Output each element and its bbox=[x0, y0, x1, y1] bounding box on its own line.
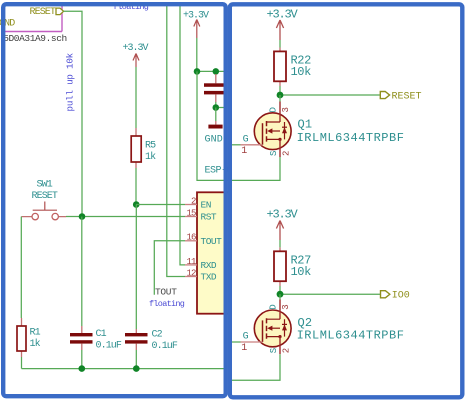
svg-text:15: 15 bbox=[186, 208, 196, 218]
+3.3V power symbol (Q2) bbox=[267, 208, 299, 241]
wire C1 to rail bbox=[81, 350, 83, 369]
resistor R22 bbox=[274, 48, 311, 87]
wire switch left to R1 bbox=[20, 217, 22, 318]
hierarchical sheet (partial, top-left) bbox=[1, 5, 62, 32]
wire R1 to ground rail bbox=[21, 357, 23, 369]
junction EN node bbox=[133, 201, 140, 208]
capacitor C1 bbox=[70, 326, 122, 352]
svg-text:0.1uF: 0.1uF bbox=[152, 341, 178, 352]
pin 16 TOUT bbox=[185, 233, 222, 247]
wire 3.3V rail right bbox=[197, 70, 228, 72]
wire junction to IO0 label bbox=[280, 293, 381, 295]
svg-text:1: 1 bbox=[241, 146, 247, 157]
Q2 IRLML6344TRPBF bbox=[232, 294, 404, 380]
junction Q1 drain bbox=[277, 92, 284, 99]
pin 2 EN bbox=[185, 196, 211, 210]
junction 3.3V left bbox=[194, 68, 201, 75]
svg-text:C2: C2 bbox=[152, 330, 163, 341]
svg-text:2: 2 bbox=[191, 196, 196, 206]
svg-text:3: 3 bbox=[281, 304, 291, 309]
svg-text:IRLML6344TRPBF: IRLML6344TRPBF bbox=[297, 131, 405, 145]
pin 11 RXD bbox=[185, 257, 217, 271]
wire +3.3V to R22 bbox=[279, 40, 281, 48]
floating wire to RXD (from top) bbox=[180, 5, 185, 265]
switch SW1 bbox=[21, 180, 66, 220]
capacitor C2 bbox=[125, 329, 178, 352]
+3.3V power symbol (R5) bbox=[123, 43, 149, 67]
svg-text:1: 1 bbox=[241, 343, 247, 354]
svg-text:11: 11 bbox=[186, 257, 196, 267]
resistor R1 bbox=[17, 318, 41, 357]
svg-text:5D0A31A9.sch: 5D0A31A9.sch bbox=[3, 33, 67, 44]
+3.3V power symbol (Q1) bbox=[267, 7, 299, 40]
svg-text:SW1: SW1 bbox=[37, 180, 53, 191]
capacitor (decoupling, at border) bbox=[204, 74, 225, 102]
wire switch to RST pin bbox=[66, 216, 185, 218]
blue highlight box left bbox=[3, 4, 226, 396]
wire +3.3V to R27 bbox=[279, 240, 281, 247]
junction at switch/RST node bbox=[79, 213, 86, 220]
svg-text:2: 2 bbox=[281, 348, 291, 353]
resistor R5 bbox=[131, 128, 156, 168]
svg-text:RESET: RESET bbox=[32, 191, 58, 202]
resistor R27 bbox=[274, 247, 311, 286]
ESP chip body U1 bbox=[197, 192, 229, 313]
svg-text:+3.3V: +3.3V bbox=[267, 208, 299, 222]
svg-text:TXD: TXD bbox=[201, 272, 217, 283]
wire C2 to rail bbox=[135, 350, 137, 369]
wire R5 to EN junction bbox=[135, 168, 137, 205]
blue highlight box right bbox=[230, 4, 462, 397]
svg-text:12: 12 bbox=[186, 268, 196, 278]
wire +3.3V down to junction bbox=[196, 38, 198, 71]
svg-text:Q1: Q1 bbox=[298, 118, 313, 132]
hierarchical label IO0 bbox=[381, 291, 410, 302]
pin 12 TXD bbox=[185, 268, 217, 282]
svg-text:1k: 1k bbox=[30, 338, 41, 350]
wire junction to RESET label bbox=[280, 94, 380, 96]
pin 15 RST bbox=[185, 208, 217, 222]
svg-text:10k: 10k bbox=[291, 65, 312, 79]
svg-text:RESET: RESET bbox=[30, 7, 56, 18]
svg-text:IO0: IO0 bbox=[392, 291, 410, 302]
svg-text:D: D bbox=[268, 107, 278, 112]
junction 3.3V cap bbox=[213, 68, 220, 75]
svg-text:TOUT: TOUT bbox=[155, 286, 177, 297]
svg-text:+3.3V: +3.3V bbox=[267, 7, 299, 21]
wire TOUT down (dangling) bbox=[154, 241, 185, 295]
svg-text:RXD: RXD bbox=[201, 260, 217, 271]
svg-text:D: D bbox=[268, 304, 278, 309]
svg-text:16: 16 bbox=[186, 233, 196, 243]
wire from sheet RESET pin right and down bbox=[64, 11, 82, 216]
junction C2 rail bbox=[133, 365, 140, 372]
svg-text:+3.3V: +3.3V bbox=[123, 43, 149, 54]
svg-text:0.1uF: 0.1uF bbox=[96, 341, 122, 352]
wire +3.3V to R5 bbox=[135, 67, 137, 128]
ground rail wire bbox=[22, 368, 225, 370]
svg-text:TOUT: TOUT bbox=[201, 236, 223, 247]
svg-text:RST: RST bbox=[201, 212, 217, 223]
svg-text:10k: 10k bbox=[291, 265, 312, 279]
hierarchical label RESET bbox=[380, 92, 421, 103]
+3.3V power symbol (ESP) bbox=[183, 11, 209, 39]
svg-text:1k: 1k bbox=[145, 151, 156, 163]
junction Q2 drain bbox=[277, 291, 284, 298]
wire cap to GND junction bbox=[216, 102, 224, 108]
svg-text:R1: R1 bbox=[30, 328, 41, 339]
svg-text:RESET: RESET bbox=[392, 92, 422, 103]
svg-text:G: G bbox=[243, 332, 249, 343]
wire EN junction down to C2 bbox=[135, 205, 137, 330]
wire switch junction down to C1 bbox=[81, 217, 83, 326]
svg-text:floating: floating bbox=[149, 299, 185, 309]
svg-text:EN: EN bbox=[201, 200, 211, 211]
svg-text:GND: GND bbox=[205, 134, 223, 145]
sheet pin RESET bbox=[30, 7, 64, 18]
GND power symbol bbox=[205, 108, 223, 146]
svg-text:IRLML6344TRPBF: IRLML6344TRPBF bbox=[297, 329, 405, 343]
svg-text:2: 2 bbox=[281, 151, 291, 156]
svg-text:C1: C1 bbox=[96, 329, 107, 340]
Q1 IRLML6344TRPBF bbox=[232, 95, 404, 180]
svg-text:R5: R5 bbox=[145, 141, 156, 152]
wire 3.3V down-around (to border) bbox=[197, 71, 228, 180]
svg-text:3: 3 bbox=[281, 107, 291, 112]
svg-text:G: G bbox=[243, 134, 249, 145]
wire EN junction to EN pin bbox=[136, 204, 185, 206]
wire R27 to drain junction bbox=[279, 286, 281, 294]
wire R22 to drain junction bbox=[279, 86, 281, 95]
svg-text:S: S bbox=[269, 151, 279, 156]
junction C1 rail bbox=[79, 365, 86, 372]
floating wire to TXD (from top) bbox=[167, 5, 185, 277]
junction GND node bbox=[213, 104, 220, 111]
svg-text:S: S bbox=[269, 348, 279, 353]
svg-text:pull up 10k: pull up 10k bbox=[65, 52, 76, 111]
